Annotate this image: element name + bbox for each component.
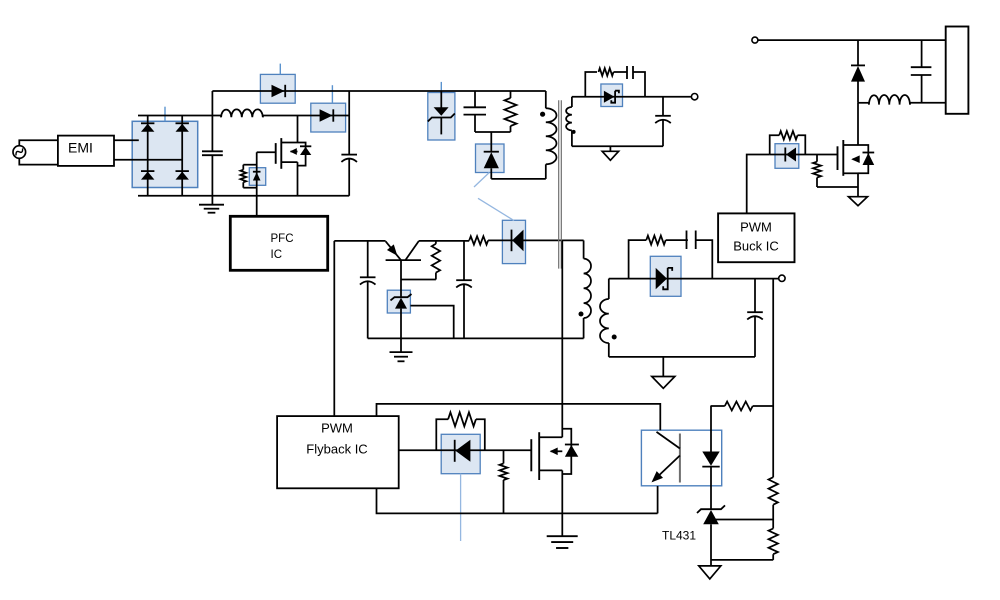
connector tick above bridge: [164, 107, 166, 122]
buck winding dot: [612, 335, 617, 340]
connector tick above D3: [331, 85, 333, 103]
pulldown resistor R7: [503, 450, 505, 463]
snubber1 resistor R5: [599, 68, 614, 76]
capacitor C4 top lead: [463, 241, 465, 280]
mosfet Q4 channel bar: [842, 140, 844, 176]
output capacitor C7 top lead: [662, 97, 664, 116]
optocoupler LED top lead: [710, 406, 712, 452]
output diode D7: [604, 91, 615, 103]
wire buck top rail: [758, 39, 946, 41]
wire aux bottom rail: [368, 337, 584, 339]
mosfet Q1 body diode: [300, 145, 311, 147]
capacitor C4: [456, 279, 472, 281]
gate diode D8: [455, 440, 470, 462]
clamp capacitor C5 bottom lead: [474, 115, 476, 132]
wire feedback tap vertical: [772, 279, 774, 478]
aux winding top lead: [583, 240, 585, 258]
wire R13 bottom: [772, 554, 774, 560]
optocoupler phototransistor bar: [679, 434, 681, 483]
wire buck rail: [609, 278, 779, 280]
inductor L1: [221, 109, 263, 117]
bridge rectifier highlight box: [132, 121, 198, 187]
wire D5 to aux winding: [526, 239, 584, 241]
wire IC to gate diode: [399, 449, 532, 451]
buck gate resistor R9 loop: [770, 135, 780, 154]
ground G3 stem: [609, 146, 611, 151]
transformer T1 primary winding: [546, 108, 557, 164]
leader line segment a: [474, 173, 489, 188]
wire Q1 source drop: [297, 162, 299, 196]
transformer T1 primary dot: [540, 112, 545, 117]
buck terminal J2: [779, 275, 785, 281]
buck diode D9: [656, 268, 667, 289]
boost diode D3 highlight box: [311, 103, 346, 132]
transformer T1 core: [558, 100, 560, 268]
TL431 cathode lead: [710, 524, 712, 566]
wire boost output node riser: [348, 91, 350, 155]
output capacitor C7: [655, 115, 671, 117]
mosfet Q3 channel bar: [538, 432, 540, 480]
bridge diode D1a: [141, 122, 154, 124]
wire EMI to bridge bottom: [114, 159, 182, 161]
gate diode D4: [253, 171, 261, 173]
buck diode D9 highlight box: [650, 256, 681, 296]
freewheel diode D11 lead: [857, 40, 859, 65]
mosfet Q3 body diode loop: [562, 429, 571, 474]
clamp capacitor C5 lead: [474, 91, 476, 107]
freewheel diode D11: [851, 64, 865, 66]
ground G4: [547, 535, 578, 537]
snubber2 resistor R8: [646, 236, 665, 245]
ground G5 stem: [662, 357, 664, 377]
wire divider node: [772, 505, 774, 529]
wire cap C1 bottom lead: [211, 155, 213, 204]
wire C3 bottom lead: [367, 282, 369, 339]
gate diode D4 highlight box: [249, 168, 265, 186]
wire Q1 drain riser: [297, 116, 299, 143]
wire bottom bus: [377, 488, 658, 513]
transistor Q2 emitter: [386, 241, 401, 260]
bridge left column wire: [147, 116, 149, 196]
transformer T1 primary top lead: [545, 91, 547, 108]
buck inductor L2: [869, 95, 911, 105]
wire EMI to bridge top: [114, 139, 139, 141]
output capacitor C7 bottom lead: [662, 120, 664, 147]
bridge diode D1b: [176, 122, 189, 124]
zener ZD1 highlight box: [387, 290, 410, 313]
PFC IC block: [230, 216, 327, 270]
buck filter cap C10 bottom lead: [921, 75, 923, 103]
clamp resistor R4: [510, 91, 512, 98]
wire ZD1 side: [410, 306, 453, 339]
bypass diode D2 highlight box: [260, 74, 295, 103]
buck capacitor C9: [747, 311, 763, 313]
resistor R3: [469, 236, 488, 244]
mosfet Q4 body diode loop: [858, 145, 868, 173]
mosfet Q4 source stub: [843, 172, 858, 174]
freewheel diode D11 bottom lead: [857, 82, 859, 103]
gate resistor R6 loop: [436, 419, 448, 450]
transistor Q2 emitter arrow: [387, 244, 397, 255]
ground G1: [199, 204, 224, 206]
transformer T1 primary bottom lead: [545, 164, 547, 179]
wire to BJT emitter: [334, 240, 385, 242]
snubber1 capacitor C6: [626, 66, 628, 79]
buck winding: [600, 299, 609, 343]
aux winding: [584, 259, 591, 318]
ground G7: [699, 566, 721, 579]
output diode D7 highlight box: [601, 84, 623, 107]
wire D8 to gate: [480, 449, 531, 451]
wire collector rail: [419, 240, 469, 242]
transistor Q2 base bar: [386, 259, 421, 261]
transformer T1 secondary bottom lead: [571, 131, 573, 147]
wire opto emitter lead: [657, 486, 659, 513]
snubber2 left leg: [629, 240, 647, 279]
snubber2 right leg: [696, 240, 713, 279]
optocoupler emitter line: [653, 456, 680, 482]
ground G3: [602, 151, 618, 160]
wire ZD1 to ground: [400, 309, 402, 353]
load block: [946, 27, 969, 114]
buck output terminal J3: [752, 37, 758, 43]
wire buck bottom rail: [609, 356, 755, 358]
wire R2 bottom to base: [401, 279, 436, 281]
gate resistor R1: [242, 165, 244, 170]
mosfet Q1 body diode loop: [298, 143, 306, 166]
buck gate diode D10 highlight box: [775, 144, 799, 169]
bypass diode D2: [272, 85, 285, 97]
optocoupler collector line: [657, 432, 680, 449]
buck filter cap C10: [911, 66, 932, 68]
wire drain vertical: [561, 240, 563, 437]
mosfet Q4 gate bar: [837, 146, 839, 170]
wire bridge bottom rail: [138, 195, 349, 197]
clamp diode D6 highlight box: [476, 144, 505, 173]
leader line from D8: [460, 474, 462, 541]
output terminal J1: [691, 94, 697, 100]
PWM Buck IC block: [718, 213, 794, 262]
TL431 shunt regulator: [697, 505, 725, 513]
wire cap C1 top lead: [211, 116, 213, 152]
aux diode D5: [512, 230, 523, 252]
buck pulldown resistor R10: [816, 155, 818, 162]
resistor R2 (base): [435, 241, 437, 244]
mosfet Q3 arrow: [551, 450, 563, 452]
svg-text:IC: IC: [271, 249, 283, 261]
snubber2 capacitor C8: [686, 231, 688, 250]
svg-text:PWM: PWM: [740, 220, 772, 235]
wire secondary bottom rail: [572, 145, 663, 147]
mosfet Q4 drain stub: [843, 144, 858, 146]
clamp capacitor C5: [464, 106, 487, 108]
wire to buck gate: [770, 154, 838, 156]
PWM Flyback IC block: [277, 416, 399, 488]
buck capacitor C9 bottom lead: [754, 316, 756, 357]
AC source V1: [13, 146, 26, 159]
bridge diode D1c: [141, 170, 154, 172]
mosfet Q1 drain stub: [281, 142, 297, 144]
wire AC top to EMI: [19, 140, 58, 146]
wire C2 bottom lead: [348, 159, 350, 196]
wire R5 to C6: [614, 71, 628, 73]
wire Q4 drain riser: [857, 103, 859, 145]
wire buck IC to gate: [747, 155, 770, 214]
boost diode D3: [320, 109, 333, 121]
wire PWM IC to BJT vertical: [333, 241, 335, 416]
TVS highlight box: [428, 93, 455, 141]
optocoupler LED: [702, 452, 719, 466]
mosfet Q3 body diode: [565, 444, 579, 446]
wire to inductor: [858, 102, 869, 104]
mosfet Q3 source stub: [539, 469, 562, 471]
transistor Q2 collector: [405, 241, 419, 260]
divider resistor R12: [769, 477, 778, 505]
aux diode D5 highlight box: [502, 220, 525, 263]
wire riser to top rail: [211, 91, 213, 116]
svg-text:Flyback IC: Flyback IC: [306, 442, 367, 457]
TVS diode: [434, 107, 449, 116]
wire clamp to diode: [490, 132, 492, 152]
optocoupler U1 box: [641, 430, 721, 486]
wire secondary top rail: [572, 96, 692, 98]
wire C4 bottom lead: [463, 284, 465, 338]
transformer T1 secondary winding: [566, 107, 572, 130]
wire R10 bottom: [817, 186, 858, 188]
mosfet Q3 drain stub: [539, 436, 562, 438]
wire Q4 source drop: [857, 173, 859, 196]
svg-text:PFC: PFC: [271, 233, 294, 245]
capacitor C3: [360, 276, 376, 278]
clamp diode D6: [484, 151, 499, 153]
svg-text:EMI: EMI: [68, 140, 93, 156]
mosfet Q1 gate bar: [275, 143, 277, 164]
wire R11 to tap: [753, 405, 774, 407]
aux winding bottom lead: [583, 318, 585, 338]
wire Q3 source drop: [561, 470, 563, 536]
wire clamp RC bottom: [475, 131, 511, 133]
wire primary bottom: [491, 178, 546, 180]
svg-text:PWM: PWM: [321, 421, 353, 436]
connector tick above TVS: [440, 82, 442, 91]
zener ZD1: [391, 294, 412, 300]
gate resistor R1 loop top: [243, 164, 256, 166]
capacitor C3 top lead: [367, 241, 369, 277]
snubber1 right leg: [633, 72, 645, 97]
wire gate network vertical: [256, 152, 258, 216]
capacitor C1: [202, 150, 223, 152]
snubber1 left leg: [585, 72, 597, 97]
feedback resistor R11: [725, 402, 753, 411]
gate diode D8 highlight box: [441, 434, 480, 473]
buck gate diode D10: [786, 148, 796, 162]
wire bottom return: [711, 559, 773, 561]
ground G2: [390, 351, 413, 353]
bulk capacitor C2: [341, 154, 357, 156]
TVS lead top: [440, 91, 442, 108]
divider resistor R13: [769, 529, 778, 555]
wire R8 to C8: [666, 239, 688, 241]
connector tick above D2: [279, 64, 281, 75]
aux winding dot: [579, 312, 584, 317]
EMI filter block: [58, 136, 114, 166]
mosfet Q1 source stub: [281, 161, 297, 163]
wire bridge top rail: [138, 115, 221, 117]
optocoupler emitter arrow: [652, 471, 664, 482]
wire PFC gate lead: [257, 151, 276, 153]
TVS lead bottom: [440, 118, 442, 135]
buck winding top lead: [608, 279, 610, 299]
wire L1 to node: [263, 115, 349, 117]
svg-text:Buck IC: Buck IC: [733, 239, 779, 254]
mosfet Q1 arrow: [291, 151, 298, 153]
bridge diode D1d: [176, 170, 189, 172]
transformer T1 secondary dot: [572, 130, 576, 134]
wire inductor to load: [910, 102, 946, 104]
buck winding bottom lead: [608, 343, 610, 357]
ground G5: [652, 377, 675, 389]
optocoupler LED bottom lead: [710, 467, 712, 509]
buck capacitor C9 top lead: [754, 279, 756, 313]
wire top rail: [212, 90, 545, 92]
wire D6 bottom lead: [490, 168, 492, 179]
svg-text:TL431: TL431: [662, 529, 696, 543]
mosfet Q4 body diode: [863, 152, 875, 154]
wire top bus: [377, 404, 661, 430]
mosfet Q4 arrow: [853, 158, 858, 160]
transformer T1 secondary top lead: [571, 97, 573, 107]
wire LED top rail: [711, 405, 725, 407]
leader line segment b: [478, 198, 514, 220]
mosfet Q1 channel bar: [280, 138, 282, 169]
bridge right column wire: [181, 116, 183, 196]
wire TL431 ref: [712, 519, 774, 521]
wire AC bottom to EMI: [19, 158, 58, 165]
gate resistor R1 loop bottom: [243, 187, 256, 189]
transistor Q2 base lead: [400, 260, 402, 297]
wire R3 to D5: [488, 239, 583, 241]
buck filter cap C10 top lead: [921, 40, 923, 67]
mosfet Q3 gate bar: [530, 439, 532, 471]
ground G6: [849, 197, 868, 206]
